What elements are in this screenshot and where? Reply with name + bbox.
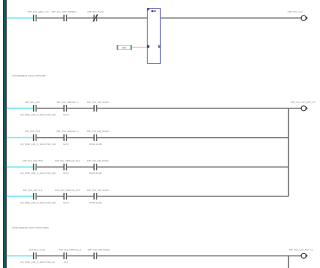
svg-text:OPEN EDGE: OPEN EDGE (89, 143, 103, 146)
svg-text:XSP_R11_CV2_AUT_OP: XSP_R11_CV2_AUT_OP (291, 101, 316, 104)
svg-text:XSP_R11_HM_AUAD1: XSP_R11_HM_AUAD1 (87, 101, 110, 104)
svg-text:XSP_R11_HM_AUAD1: XSP_R11_HM_AUAD1 (87, 189, 110, 192)
svg-text:XSP_R11_HMAULD_2: XSP_R11_HMAULD_2 (59, 248, 82, 251)
svg-text:OPEN EDGE: OPEN EDGE (89, 202, 103, 205)
svg-text:XSP_R11_AUTO: XSP_R11_AUTO (87, 10, 104, 13)
svg-text:XSP_R11_HM_AUAD1: XSP_R11_HM_AUAD1 (87, 160, 110, 163)
svg-text:XSP_R11_CLS2: XSP_R11_CLS2 (29, 248, 46, 251)
svg-text:AUTO: AUTO (63, 143, 69, 146)
svg-text:ON_TASK_USE_A_SELECTED_NR: ON_TASK_USE_A_SELECTED_NR (20, 172, 56, 175)
svg-text:XSP_R11_AUT: XSP_R11_AUT (25, 101, 41, 104)
svg-text:XSP_R11_HMAULD_AC2: XSP_R11_HMAULD_AC2 (55, 160, 81, 163)
svg-text:XSP_R11_CV2_AUT_CL: XSP_R11_CV2_AUT_CL (289, 248, 314, 251)
svg-text:XSP_R11_HM_AUAD1: XSP_R11_HM_AUAD1 (88, 248, 111, 251)
svg-text:XSP_R11_HMAULD_2: XSP_R11_HMAULD_2 (56, 101, 79, 104)
svg-text:XSP_R11_CMD_CLS: XSP_R11_CMD_CLS (27, 10, 49, 13)
svg-text:XSP_R11_CMD_ENABLE: XSP_R11_CMD_ENABLE (51, 10, 77, 13)
svg-text:XSP_R11_HMAULD_AC2: XSP_R11_HMAULD_AC2 (55, 189, 81, 192)
svg-text:XSP_R11_HMAULD_2: XSP_R11_HMAULD_2 (56, 130, 79, 133)
svg-text:ON_TASK_USE_A_SELECTED_NR: ON_TASK_USE_A_SELECTED_NR (20, 202, 56, 205)
svg-text:ON_TASK_USE_A_SELECTED_NT: ON_TASK_USE_A_SELECTED_NT (20, 261, 56, 264)
svg-text:XSP_R11_OPN: XSP_R11_OPN (25, 130, 41, 133)
svg-text:XSP_R11_HM_CLS: XSP_R11_HM_CLS (23, 189, 43, 192)
svg-text:AUTO/MANUAL SELECTION HMI: AUTO/MANUAL SELECTION HMI (12, 74, 46, 77)
svg-text:AUTO: AUTO (63, 114, 69, 117)
svg-text:AUTO: AUTO (63, 202, 69, 205)
svg-text:OPEN EDGE: OPEN EDGE (89, 172, 103, 175)
svg-text:VALVE MANUAL AUTO OPEN CMDS: VALVE MANUAL AUTO OPEN CMDS (12, 226, 49, 229)
svg-text:AUTO: AUTO (63, 172, 69, 175)
svg-text:CLS: CLS (64, 261, 69, 264)
svg-text:XSP_R11_CLS: XSP_R11_CLS (288, 10, 303, 13)
svg-text:XSP_R11_HM_AUAD1: XSP_R11_HM_AUAD1 (87, 130, 110, 133)
svg-text:ON_TASK_USE_A_SELECTED_NR: ON_TASK_USE_A_SELECTED_NR (20, 114, 56, 117)
svg-text:XSP_R11_HM_OPN: XSP_R11_HM_OPN (22, 160, 42, 163)
svg-text:ON_TASK_USE_A_SELECTED_NR: ON_TASK_USE_A_SELECTED_NR (20, 143, 56, 146)
